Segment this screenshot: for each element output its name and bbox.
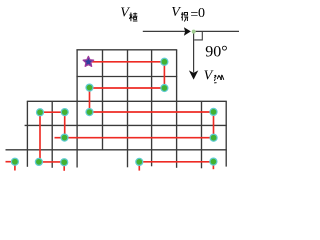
wire: vertical x=151.6 xyxy=(151,50,153,167)
node D13 xyxy=(210,158,217,165)
node D11 xyxy=(61,159,68,166)
wire: terrace3 top edge xyxy=(25,124,227,126)
annotation: horizontal arrow shaft xyxy=(143,30,185,32)
node D5 xyxy=(61,109,68,116)
glyph guai (turn) xyxy=(181,12,188,21)
wire: path D5 down to D8 xyxy=(64,112,66,137)
wire: path D2 left to D3 xyxy=(90,87,165,89)
wire: path long row through D8 to D14 xyxy=(55,137,214,139)
annotation: continuation line after node xyxy=(196,30,239,32)
wire: top block top edge xyxy=(76,49,177,51)
annotation: down arrowhead xyxy=(189,70,198,79)
wire: vertical x=226.2 xyxy=(225,101,227,166)
wire: stub below D9 xyxy=(14,162,16,171)
glyph heng (horizontal) xyxy=(129,13,137,22)
node D8 xyxy=(61,134,68,141)
wire: path left stub to D9 xyxy=(6,161,15,163)
annotation: vertical arrow shaft xyxy=(193,31,195,72)
start star xyxy=(83,56,93,66)
wire: path star to D1 xyxy=(92,61,164,63)
wire: path D4 down to D10 xyxy=(39,112,41,162)
wire: vertical x=176.6 xyxy=(176,50,178,168)
wire: path D4 to D5 xyxy=(40,111,65,113)
node D7 xyxy=(210,108,217,115)
svg-text:90°: 90° xyxy=(205,44,227,61)
wire: vertical x=127.5 xyxy=(127,50,129,168)
wire: path D12 to D13 xyxy=(139,161,213,163)
glyph zong (vertical) xyxy=(214,75,224,83)
node D9 xyxy=(11,158,18,165)
svg-text:V: V xyxy=(120,6,130,21)
annotation: right arrowhead xyxy=(184,27,191,36)
svg-text:V: V xyxy=(204,68,214,83)
svg-text:0: 0 xyxy=(198,6,205,21)
wire: vertical x=102.5 xyxy=(102,50,104,150)
wire: stub below D11 xyxy=(63,162,65,171)
wire: stub below D13 xyxy=(212,162,214,170)
node D3 xyxy=(86,84,93,91)
wire: path D7 down to D14 xyxy=(213,112,215,138)
node: turn point green dot xyxy=(192,30,196,34)
wire: vertical x=27.4 xyxy=(26,101,28,167)
node D10 xyxy=(35,158,42,165)
wire: vertical x=201.5 xyxy=(201,101,203,168)
grid: staircase shelf blocks xyxy=(6,50,227,169)
pick point dots (green with teal ring) xyxy=(11,58,217,165)
annotation: right-angle mark xyxy=(194,32,202,40)
wire: path D10 to D11 xyxy=(39,161,64,163)
node D6 xyxy=(86,109,93,116)
wire: vertical x=77.1 xyxy=(76,50,78,168)
node D12 xyxy=(136,158,143,165)
wire: path D3 down to D6 xyxy=(89,88,91,112)
node D1 xyxy=(161,58,168,65)
wire: top block middle horizontal xyxy=(76,76,177,78)
wire: path D6 right to D7 xyxy=(90,111,214,113)
wire: path D1 down to D2 xyxy=(163,62,165,88)
red picking path xyxy=(6,62,214,171)
wire: terrace2 top edge xyxy=(27,100,227,102)
svg-text:V: V xyxy=(171,5,181,20)
node D4 xyxy=(37,109,44,116)
wire: bottom band top edge xyxy=(6,149,227,151)
node D14 xyxy=(210,134,217,141)
wire: stub below D12 xyxy=(138,162,140,171)
wire: vertical x=52.2 xyxy=(51,101,53,168)
node D2 xyxy=(161,85,168,92)
